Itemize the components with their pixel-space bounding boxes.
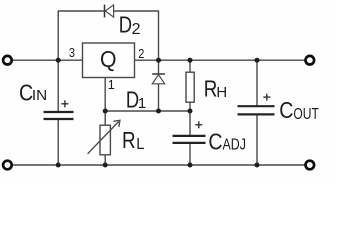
wire bottom rail — [12, 164, 306, 166]
wire C_OUT lower — [256, 115, 258, 165]
diode D2 cathode bar — [104, 5, 106, 18]
capacitor C_OUT plus — [263, 96, 270, 98]
terminal input top-left — [3, 56, 12, 65]
wire R_L top — [104, 111, 106, 125]
diode D2 triangle — [105, 5, 113, 17]
wire D1 branch lower — [158, 84, 160, 111]
regulator Q body — [83, 43, 135, 78]
node C_OUT/bottom rail junction — [255, 163, 260, 168]
svg-text:C: C — [279, 97, 293, 123]
svg-text:2: 2 — [132, 21, 141, 38]
wire D2-loop right vertical — [158, 11, 160, 60]
wire D2-loop left vertical — [57, 11, 59, 60]
svg-text:1: 1 — [108, 77, 115, 92]
diode D1 cathode bar — [152, 73, 165, 75]
wire Q pin1 down — [104, 78, 106, 112]
resistor R_L body (variable) — [100, 125, 110, 155]
svg-text:L: L — [136, 136, 144, 153]
svg-text:ADJ: ADJ — [223, 136, 247, 153]
svg-text:R: R — [204, 75, 218, 101]
wire R_H bottom — [189, 102, 191, 111]
svg-text:IN: IN — [32, 87, 47, 104]
svg-text:R: R — [122, 127, 136, 153]
capacitor C_ADJ plus — [195, 124, 202, 126]
node ADJ/pin1/R_L junction — [103, 109, 108, 114]
terminal output bottom-right — [306, 161, 315, 170]
svg-text:Q: Q — [100, 46, 117, 72]
node input/D2/C_IN junction — [56, 58, 61, 63]
wire R_L bottom — [104, 155, 106, 165]
wire ADJ node horizontal — [105, 110, 190, 112]
wire output rail (Q pin2 to output terminal) — [135, 59, 306, 61]
wire D2-loop top-right segment — [114, 10, 160, 12]
node ADJ/R_H/C_ADJ junction — [188, 109, 193, 114]
capacitor C_ADJ plates — [173, 135, 206, 137]
svg-text:OUT: OUT — [293, 106, 319, 123]
wire R_H top — [189, 60, 191, 72]
resistor R_H body — [186, 72, 194, 102]
resistor R_L wiper arrow — [88, 122, 119, 154]
svg-text:D: D — [119, 12, 132, 38]
node D2/output rail junction — [156, 58, 161, 63]
node C_IN/bottom rail junction — [56, 163, 61, 168]
node ADJ/D1 junction — [156, 109, 161, 114]
terminal output top-right — [306, 56, 315, 65]
terminal input bottom-left — [3, 161, 12, 170]
wire C_IN branch upper — [57, 60, 59, 111]
diode D1 triangle — [152, 75, 164, 84]
wire C_IN branch lower — [57, 120, 59, 165]
svg-text:2: 2 — [138, 46, 144, 61]
wire D1 branch upper — [158, 60, 160, 74]
node R_H/output rail junction — [188, 58, 193, 63]
wire input top (terminal to Q pin3) — [12, 59, 83, 61]
svg-text:C: C — [208, 128, 222, 154]
capacitor C_IN plus — [61, 103, 68, 105]
svg-text:3: 3 — [69, 45, 75, 60]
node R_L/bottom rail junction — [103, 163, 108, 168]
wire C_ADJ lower — [189, 143, 191, 165]
wire C_OUT upper — [256, 60, 258, 106]
capacitor C_OUT plates — [238, 105, 275, 107]
node C_OUT/output rail junction — [255, 58, 260, 63]
capacitor C_IN plates — [44, 111, 74, 113]
wire C_ADJ upper — [189, 111, 191, 136]
node C_ADJ/bottom rail junction — [188, 163, 193, 168]
wire D2-loop top-left segment — [58, 10, 105, 12]
svg-text:1: 1 — [138, 95, 146, 112]
svg-text:H: H — [216, 84, 227, 101]
